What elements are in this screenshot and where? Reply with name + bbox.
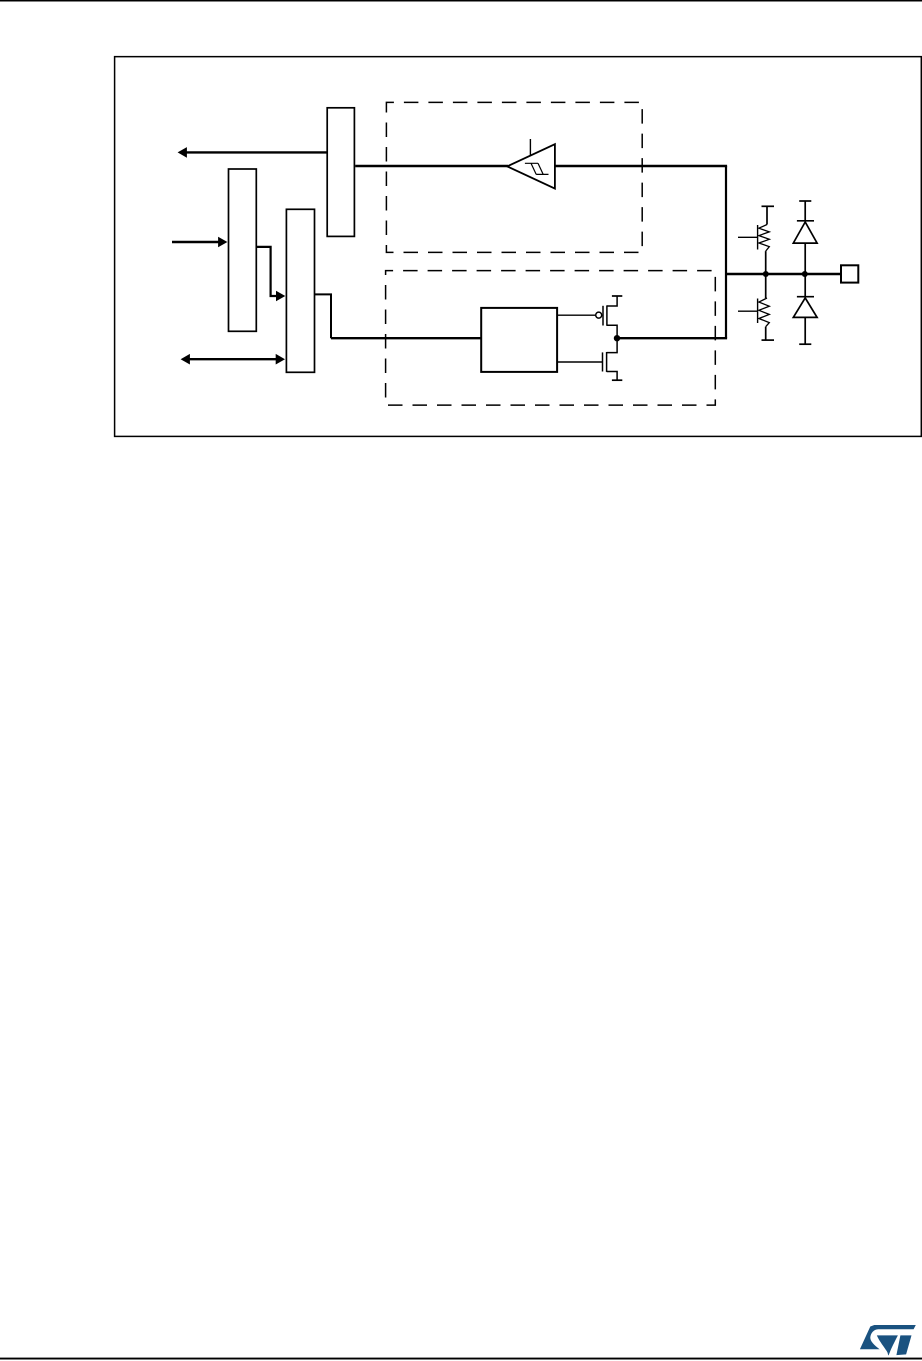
protection diode to VSS	[793, 274, 817, 344]
ST logo	[860, 1325, 916, 1355]
wire: vertical pad net	[725, 166, 727, 338]
node: push-pull output junction	[614, 335, 620, 341]
input driver dashed box	[386, 102, 642, 252]
wire: I/O line to pad	[725, 273, 841, 275]
bit set/reset register	[229, 169, 257, 331]
output data register	[286, 209, 314, 372]
output control block	[481, 308, 557, 372]
weak pull-up resistor	[738, 206, 774, 274]
node: diode junction	[802, 271, 808, 277]
output driver dashed box	[386, 271, 716, 406]
read access arrow	[178, 147, 328, 158]
schmitt trigger TTL input buffer	[507, 139, 555, 189]
node: pull-up junction	[763, 271, 769, 277]
transistor P-MOS	[596, 296, 623, 338]
wire: output to pad net	[617, 337, 727, 339]
wire: output data register to output control	[315, 294, 482, 338]
transistor N-MOS	[603, 338, 623, 380]
wire: gate drive N-MOS	[557, 361, 602, 363]
read/write double arrow	[181, 354, 285, 365]
protection diode to VDD	[793, 201, 817, 274]
write access arrow	[172, 237, 227, 248]
input data register	[327, 108, 354, 237]
wire: schmitt input from pad node	[555, 165, 727, 167]
wire: gate drive P-MOS	[557, 314, 596, 316]
I/O pin pad	[841, 265, 858, 282]
wire: input data register to schmitt trigger	[355, 165, 508, 167]
wire: set/reset to output register arrow	[256, 247, 285, 301]
weak pull-down resistor	[738, 274, 774, 340]
